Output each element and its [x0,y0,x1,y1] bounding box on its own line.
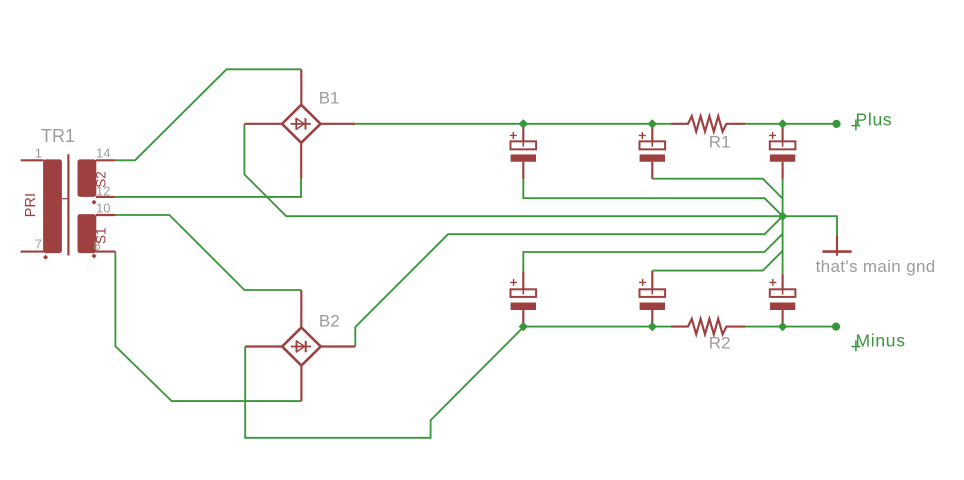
svg-text:7: 7 [35,237,42,252]
svg-text:Plus: Plus [856,109,893,129]
svg-text:B1: B1 [319,89,340,108]
svg-text:that's main gnd: that's main gnd [816,257,936,276]
svg-text:1: 1 [35,146,42,161]
svg-text:B2: B2 [319,312,340,331]
svg-text:TR1: TR1 [41,126,75,146]
svg-text:10: 10 [96,201,110,216]
svg-text:S2: S2 [94,171,109,188]
svg-text:PRI: PRI [23,193,39,217]
svg-text:14: 14 [96,146,110,161]
svg-text:R2: R2 [709,333,731,352]
svg-text:R1: R1 [709,133,731,152]
svg-text:Minus: Minus [856,330,906,350]
svg-text:S1: S1 [94,227,109,244]
